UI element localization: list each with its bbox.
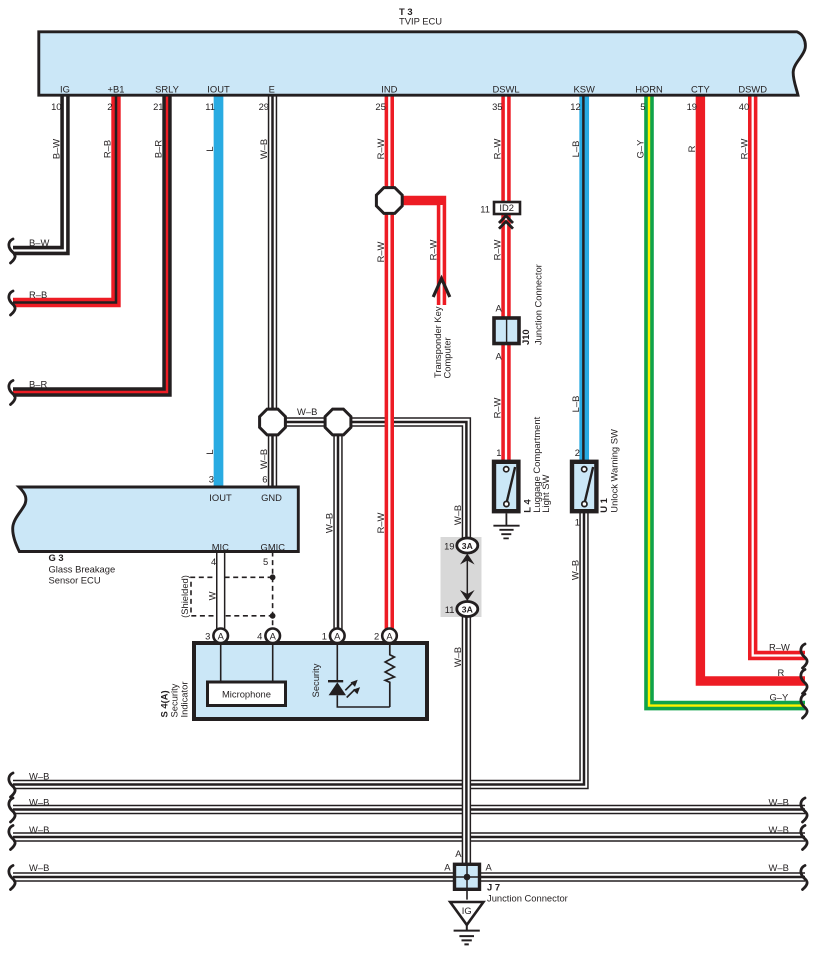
svg-text:11: 11 [445, 604, 455, 615]
wire L-B from ECU pin 12 (KSW) to U1 pin 2 [579, 95, 589, 461]
svg-text:J10: J10 [520, 329, 531, 345]
label G-Y on HORN wire [635, 139, 646, 159]
svg-text:A: A [270, 630, 277, 641]
node octagon splice (second) [325, 409, 351, 435]
wire B-W from ECU pin 10 (IG) to torn end left [13, 95, 65, 251]
svg-text:TVIP ECU: TVIP ECU [399, 16, 442, 27]
svg-text:A: A [386, 630, 393, 641]
label L on IOUT wire [204, 146, 215, 151]
label R at torn end right [778, 667, 785, 678]
svg-text:R–W: R–W [375, 241, 386, 262]
double-headed arrow between 3A connectors [460, 554, 475, 602]
torn end R-B left [9, 291, 15, 315]
wire R-W J10 junction connector to L4 pin 1 [501, 342, 510, 461]
svg-text:B–R: B–R [153, 140, 164, 158]
IG ground triangle below J7 [450, 891, 483, 925]
svg-text:40: 40 [739, 101, 749, 112]
pin A right of J7 [486, 862, 493, 873]
svg-text:A: A [496, 351, 503, 362]
svg-text:Junction Connector: Junction Connector [533, 264, 544, 345]
label W-B on octagon bridge [297, 406, 317, 417]
label L-B on KSW wire [570, 141, 581, 158]
node J 7 Junction Connector label [487, 882, 568, 904]
torn end W-B bus3 right [801, 826, 807, 850]
wire W (MIC) G3 pin 4 to S4 pin 3 [216, 552, 225, 629]
svg-text:19: 19 [687, 101, 697, 112]
wire G-Y from ECU pin 5 (HORN) to torn end right [649, 95, 805, 706]
svg-text:6: 6 [262, 474, 267, 485]
wire W-B horizontal bus 4 through J7 [13, 872, 805, 881]
torn end W-B bus4 right [801, 866, 807, 890]
label L-B on KSW wire above U1 [570, 396, 581, 413]
svg-text:G–Y: G–Y [635, 139, 646, 159]
svg-text:G 3: G 3 [49, 552, 64, 563]
torn end W-B bus1 left [9, 773, 15, 797]
svg-text:4: 4 [211, 556, 216, 567]
svg-text:Microphone: Microphone [222, 689, 271, 700]
switch L4 Luggage Compartment Light SW [494, 462, 518, 511]
svg-text:A: A [218, 630, 225, 641]
label R-B on +B1 wire [102, 140, 113, 158]
label (Shielded) [179, 575, 190, 618]
junction connector J7 [455, 864, 480, 889]
svg-text:W–B: W–B [258, 449, 269, 469]
svg-text:W–B: W–B [29, 771, 49, 782]
svg-text:B–W: B–W [29, 237, 49, 248]
pin A left of J7 [444, 862, 451, 873]
label W-B bus2 left [29, 797, 49, 808]
svg-text:2: 2 [575, 447, 580, 458]
label W-B below 3A breaker [452, 647, 463, 667]
wire W-B 3A breaker pin 11 down to J7 pin A [462, 616, 471, 867]
pin 4 (A) of S4 [265, 629, 280, 644]
torn end R-W right [801, 644, 807, 668]
pin A above J10 [496, 302, 503, 313]
pin 4 number [257, 631, 262, 642]
wire W-B octagon node to G3 GND pin 6 [268, 435, 277, 489]
label R-W at torn end right [769, 642, 790, 653]
ground below L4 [493, 513, 519, 538]
svg-text:Junction Connector: Junction Connector [487, 893, 568, 904]
wire R-W branch from octagon to Transponder Key Computer [402, 201, 442, 306]
wire W-B horizontal bus 3 [13, 832, 805, 841]
node U 1 Unlock Warning SW label [598, 429, 619, 513]
svg-text:IG: IG [462, 905, 472, 916]
label R-W on transponder branch [427, 239, 438, 260]
svg-text:KSW: KSW [574, 83, 596, 94]
label W-B on E wire [258, 139, 269, 159]
wire R-W octagon node down to S4 pin 2 [385, 213, 394, 630]
svg-text:W–B: W–B [452, 647, 463, 667]
torn end W-B bus3 left [9, 826, 15, 850]
svg-text:W–B: W–B [769, 824, 789, 835]
ECU pin labels [60, 83, 767, 94]
wire W-B from ECU pin 29 (E) down to octagon node [268, 95, 277, 410]
label W on MIC wire [206, 591, 217, 600]
svg-text:E: E [269, 83, 275, 94]
ECU G3 Glass Breakage Sensor block [13, 487, 299, 552]
wire R-W from ECU pin 40 (DSWD) to torn end right [753, 95, 805, 656]
svg-text:W–B: W–B [769, 797, 789, 808]
resistor in S4 [385, 643, 394, 707]
svg-text:L–B: L–B [570, 141, 581, 158]
svg-text:W–B: W–B [769, 862, 789, 873]
svg-text:Sensor ECU: Sensor ECU [49, 574, 101, 585]
svg-text:35: 35 [492, 101, 502, 112]
svg-text:+B1: +B1 [108, 83, 125, 94]
svg-text:A: A [496, 302, 503, 313]
label W-B bus1 left [29, 771, 49, 782]
label W-B on GND wire [258, 449, 269, 469]
torn end B-W left [9, 239, 15, 263]
pin 1 number [322, 631, 327, 642]
svg-text:1: 1 [322, 631, 327, 642]
torn end R right [801, 670, 807, 694]
ground below IG triangle [454, 925, 480, 945]
svg-text:4: 4 [257, 631, 262, 642]
svg-text:Computer: Computer [441, 337, 452, 378]
svg-text:L–B: L–B [570, 396, 581, 413]
wire R-W from ECU pin 35 (DSWL) to ID2 connector [501, 95, 510, 202]
svg-text:W–B: W–B [452, 505, 463, 525]
svg-text:A: A [486, 862, 493, 873]
ECU pin numbers [51, 101, 749, 112]
svg-text:Security: Security [310, 663, 321, 697]
svg-text:R: R [686, 145, 697, 152]
label R-W on DSWL wire [492, 138, 503, 159]
svg-text:DSWD: DSWD [738, 83, 767, 94]
svg-text:Unlock Warning SW: Unlock Warning SW [608, 429, 619, 513]
svg-text:HORN: HORN [635, 83, 663, 94]
svg-text:L: L [204, 449, 215, 454]
svg-text:25: 25 [375, 101, 385, 112]
svg-text:1: 1 [496, 447, 501, 458]
chevron arrow to Transponder Key Computer [433, 279, 450, 298]
pin 3 number [205, 631, 210, 642]
svg-text:J 7: J 7 [487, 882, 500, 893]
wire W-B between octagon nodes [285, 417, 325, 426]
pin 2 number [374, 631, 379, 642]
svg-text:IOUT: IOUT [209, 492, 232, 503]
svg-text:A: A [444, 862, 451, 873]
junction connector J10 [494, 318, 519, 344]
svg-text:G–Y: G–Y [770, 692, 790, 703]
label B-W at torn end [29, 237, 49, 248]
svg-text:12: 12 [570, 101, 580, 112]
wire R-W ID2 connector to J10 junction connector [501, 214, 510, 319]
svg-text:W–B: W–B [29, 797, 49, 808]
LED Security indicator [328, 643, 390, 707]
torn end W-B bus2 left [9, 798, 15, 822]
circuit breaker connector pin 11 (3A) [457, 602, 478, 617]
pin 11 of ID2 [480, 204, 490, 215]
wire B-R from ECU pin 21 (SRLY) to torn end left [13, 95, 167, 392]
gray highlight behind circuit-breaker connector pair [441, 537, 482, 617]
svg-text:R–W: R–W [427, 239, 438, 260]
svg-text:R–W: R–W [492, 397, 503, 418]
node T 3 TVIP ECU title [399, 6, 442, 27]
label R on CTY wire [686, 145, 697, 152]
wire R-B from ECU pin 2 (+B1) to torn end left [13, 95, 116, 303]
svg-text:W–B: W–B [570, 560, 581, 580]
Microphone box [208, 643, 286, 706]
svg-text:CTY: CTY [691, 83, 710, 94]
junction dot shield to GMIC (top) [270, 574, 276, 580]
svg-text:A: A [334, 630, 341, 641]
svg-text:Glass Breakage: Glass Breakage [49, 563, 116, 574]
svg-text:Light SW: Light SW [540, 475, 551, 513]
svg-text:W–B: W–B [258, 139, 269, 159]
circuit breaker connector pin 19 (3A) [457, 538, 478, 553]
svg-text:W: W [206, 591, 217, 600]
svg-text:Indicator: Indicator [178, 682, 189, 718]
svg-text:R: R [778, 667, 785, 678]
wire R-W from ECU pin 25 (IND) to octagon node [385, 95, 394, 189]
svg-text:R–W: R–W [492, 239, 503, 260]
torn end B-R left [9, 381, 15, 405]
svg-text:GND: GND [261, 492, 282, 503]
node L 4 Luggage Compartment Light SW label [522, 416, 551, 512]
pin A above J7 [455, 848, 462, 859]
label W-B bus4 left [29, 862, 49, 873]
svg-text:R–W: R–W [769, 642, 790, 653]
label W-B bus4 right [769, 862, 789, 873]
label W-B below U1 [570, 560, 581, 580]
svg-text:5: 5 [263, 556, 268, 567]
svg-text:R–B: R–B [102, 140, 113, 158]
svg-text:ID2: ID2 [499, 202, 514, 213]
torn end W-B bus2 right [801, 798, 807, 822]
svg-text:R–W: R–W [375, 138, 386, 159]
junction dot shield to GMIC (bottom) [270, 613, 276, 619]
svg-text:W–B: W–B [297, 406, 317, 417]
svg-text:B–W: B–W [51, 139, 62, 159]
svg-text:SRLY: SRLY [155, 83, 180, 94]
label R-B at torn end [29, 289, 47, 300]
double chevron arrow below ID2 [499, 216, 513, 229]
svg-text:R–W: R–W [738, 138, 749, 159]
label R-W on DSWD wire [738, 138, 749, 159]
node Transponder Key Computer label [432, 306, 452, 378]
label R-W on DSWL wire below ID2 [492, 239, 503, 260]
svg-text:1: 1 [575, 517, 580, 528]
svg-text:11: 11 [205, 101, 215, 112]
label B-W on IG wire [51, 139, 62, 159]
wire W-B from U1 pin 1 down and left to torn end [13, 512, 584, 785]
pin 1 (A) of S4 [330, 629, 345, 644]
label W-B on octagon-S4 wire [324, 513, 335, 533]
ECU S4(A) Security Indicator block [194, 643, 427, 719]
svg-text:IOUT: IOUT [207, 83, 230, 94]
svg-text:GMIC: GMIC [261, 541, 286, 552]
label R-W on DSWL wire above L4 [492, 397, 503, 418]
label B-R at torn end [29, 379, 47, 390]
pin 2 of U1 [575, 447, 580, 458]
pin 1 below U1 [575, 517, 580, 528]
svg-text:R–W: R–W [492, 138, 503, 159]
svg-text:W–B: W–B [324, 513, 335, 533]
svg-text:2: 2 [374, 631, 379, 642]
connector ID2 on DSWL wire [494, 202, 520, 214]
shield (Shielded) dashed box [191, 577, 273, 616]
torn end W-B bus4 left [9, 866, 15, 890]
svg-text:IND: IND [381, 83, 397, 94]
label R-W on IND wire [375, 138, 386, 159]
svg-text:21: 21 [153, 101, 163, 112]
torn end G-Y right [801, 694, 807, 718]
svg-text:10: 10 [51, 101, 61, 112]
wire W-B octagon node right, corner down to 3A breaker pin 19 [351, 422, 467, 539]
pin A below J10 [496, 351, 503, 362]
svg-text:3: 3 [209, 474, 214, 485]
label G-Y at torn end right [770, 692, 790, 703]
node octagon splice on E wire [260, 409, 286, 435]
svg-text:29: 29 [259, 101, 269, 112]
svg-text:W–B: W–B [29, 824, 49, 835]
svg-text:2: 2 [107, 101, 112, 112]
svg-text:11: 11 [480, 204, 490, 215]
ECU T3 block [39, 32, 806, 95]
label W-B above 3A breaker [452, 505, 463, 525]
svg-text:R–W: R–W [375, 512, 386, 533]
svg-text:R–B: R–B [29, 289, 47, 300]
svg-text:IG: IG [60, 83, 70, 94]
svg-text:W–B: W–B [29, 862, 49, 873]
switch U1 Unlock Warning SW [572, 462, 596, 511]
G3 pin labels [209, 492, 285, 553]
node G 3 Glass Breakage Sensor ECU title [49, 552, 116, 585]
wire L from ECU pin 11 (IOUT) to G3 IOUT pin 3 [214, 95, 224, 488]
label B-R on SRLY wire [153, 140, 164, 158]
svg-text:3: 3 [205, 631, 210, 642]
G3 pin numbers [209, 474, 268, 568]
node J10 Junction Connector label [520, 264, 544, 345]
svg-text:3A: 3A [462, 541, 473, 551]
wire W-B octagon node down to S4 pin 1 [333, 435, 342, 630]
pin 11 label [445, 604, 455, 615]
node octagon splice on IND wire [376, 188, 402, 214]
label W-B bus3 left [29, 824, 49, 835]
node S 4(A) Security Indicator label [159, 682, 190, 718]
pin 3 (A) of S4 [213, 629, 228, 644]
wire W-B horizontal bus 2 [13, 805, 805, 814]
wire R from ECU pin 19 (CTY) to torn end right [700, 95, 805, 681]
label W-B bus3 right [769, 824, 789, 835]
label W-B bus2 right [769, 797, 789, 808]
svg-text:MIC: MIC [212, 541, 229, 552]
svg-text:19: 19 [444, 541, 454, 552]
svg-text:(Shielded): (Shielded) [179, 575, 190, 618]
node Security label [310, 663, 321, 697]
svg-text:B–R: B–R [29, 379, 47, 390]
label L on IOUT wire above G3 [204, 449, 215, 454]
pin 19 label [444, 541, 454, 552]
svg-text:5: 5 [640, 101, 645, 112]
svg-text:L: L [204, 146, 215, 151]
label R-W on IND wire near S4 [375, 512, 386, 533]
pin 1 of L4 [496, 447, 501, 458]
pin 2 (A) of S4 [382, 629, 397, 644]
svg-text:3A: 3A [462, 604, 473, 614]
svg-text:DSWL: DSWL [492, 83, 519, 94]
wire GMIC dashed shield drain, G3 pin 5 to S4 pin 4 [272, 552, 274, 629]
svg-text:A: A [455, 848, 462, 859]
label R-W on IND wire below octagon [375, 241, 386, 262]
